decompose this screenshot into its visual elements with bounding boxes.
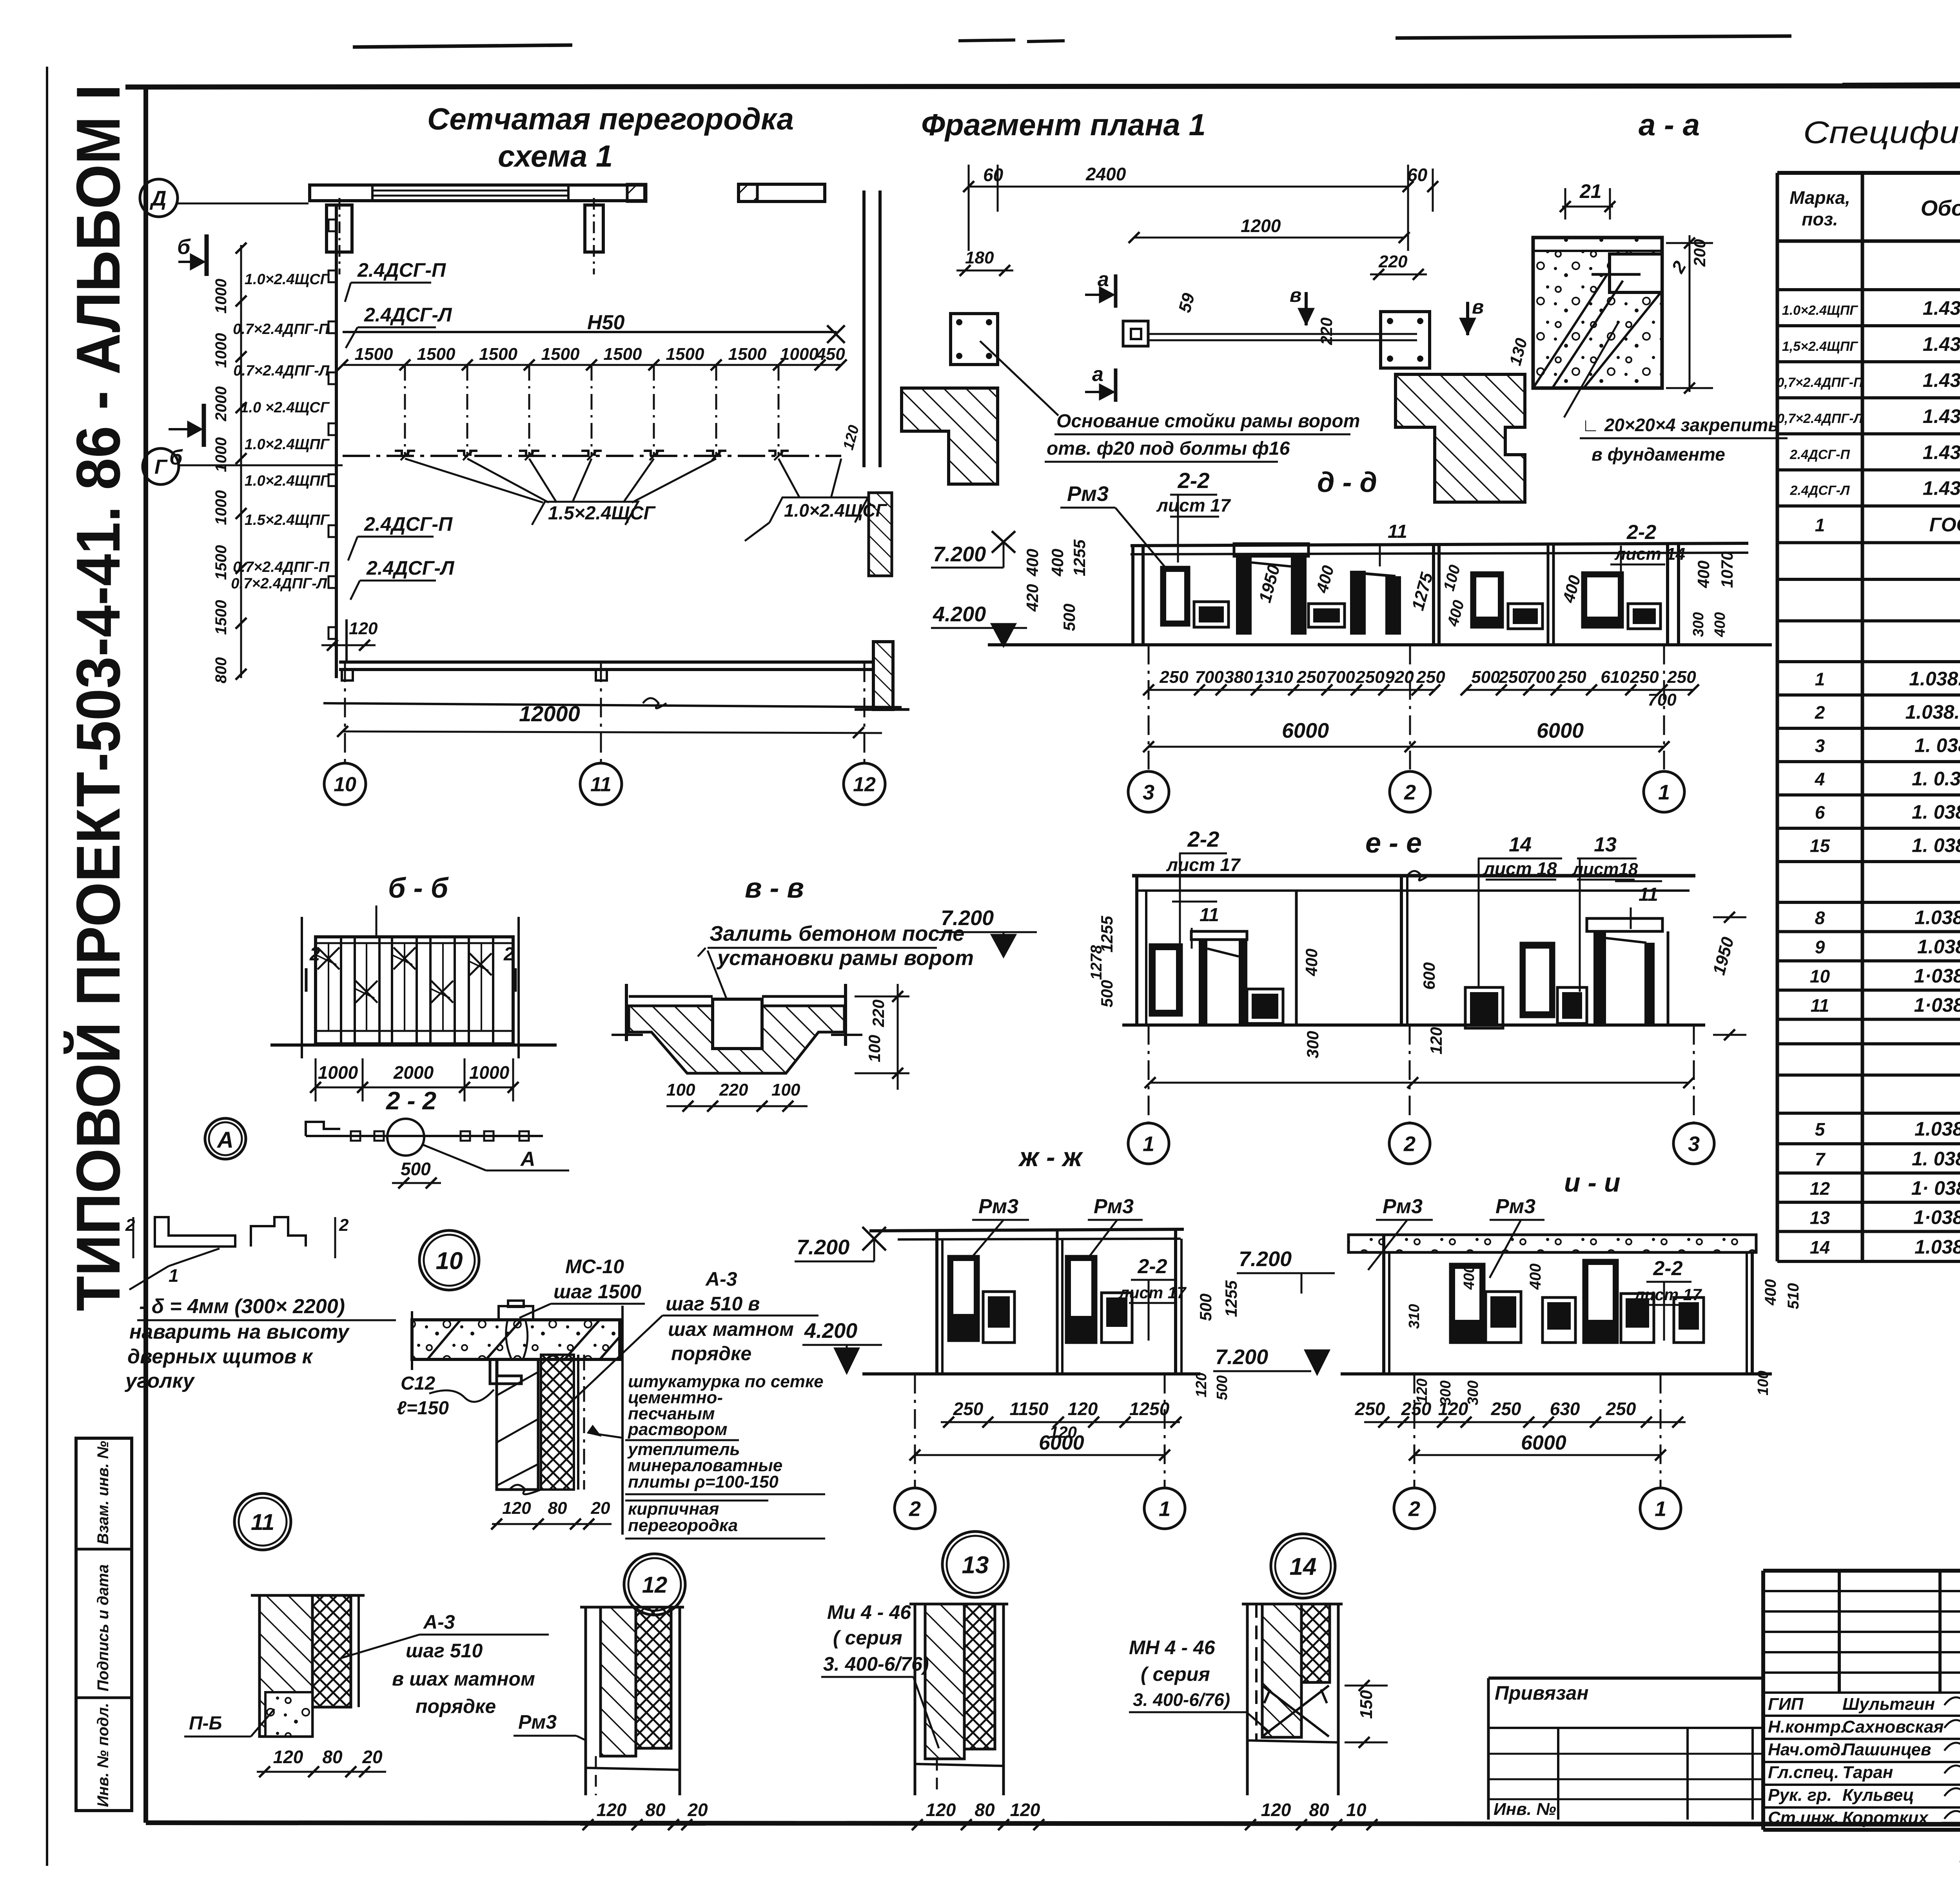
svg-text:Сетчатая перегородка: Сетчатая перегородка xyxy=(427,102,794,136)
svg-text:10: 10 xyxy=(1346,1800,1367,1820)
zh-zh bubbles xyxy=(914,1374,916,1488)
node11 wall detail xyxy=(260,1595,312,1737)
fan label 1.5x2.4SHSG xyxy=(532,502,638,525)
svg-text:15: 15 xyxy=(1810,835,1831,856)
section mark b upper xyxy=(205,234,209,276)
svg-text:8: 8 xyxy=(1815,907,1825,928)
svg-text:250: 250 xyxy=(1159,668,1189,687)
svg-text:шаг 510: шаг 510 xyxy=(406,1640,483,1662)
svg-text:250: 250 xyxy=(1401,1399,1432,1419)
svg-text:6000: 6000 xyxy=(1039,1432,1084,1454)
node bubble 10 xyxy=(419,1230,479,1290)
d-d grid bubbles xyxy=(1148,645,1150,769)
left gate post base xyxy=(951,314,998,365)
svg-text:3. 400-6/76): 3. 400-6/76) xyxy=(823,1653,929,1675)
svg-text:а: а xyxy=(1092,363,1103,386)
e-e walls xyxy=(1295,891,1298,1025)
svg-text:1.0×2.4ЩПГ: 1.0×2.4ЩПГ xyxy=(1782,303,1858,318)
e-e bay2 panels xyxy=(1465,987,1503,1028)
svg-text:500: 500 xyxy=(1060,604,1078,631)
svg-text:380: 380 xyxy=(1224,668,1253,687)
svg-text:1: 1 xyxy=(1655,1497,1666,1521)
svg-text:4.200: 4.200 xyxy=(933,602,986,626)
svg-text:∟ 20×20×4 закрепить: ∟ 20×20×4 закрепить xyxy=(1582,415,1779,435)
svg-text:Н.контр.: Н.контр. xyxy=(1768,1717,1846,1737)
svg-text:1070: 1070 xyxy=(1718,552,1736,588)
svg-text:0,7×2.4ДПГ-П: 0,7×2.4ДПГ-П xyxy=(1777,375,1864,390)
svg-text:Коротких: Коротких xyxy=(1842,1808,1929,1827)
svg-text:7.200: 7.200 xyxy=(941,906,994,930)
svg-text:1500: 1500 xyxy=(666,345,704,364)
node bubble 14 xyxy=(1271,1534,1335,1598)
svg-text:2-2: 2-2 xyxy=(1653,1257,1682,1280)
svg-text:13: 13 xyxy=(1810,1207,1830,1228)
svg-text:Инв. № подл.: Инв. № подл. xyxy=(94,1703,112,1807)
svg-text:1500: 1500 xyxy=(212,545,230,580)
node10 dims 120 80 20 xyxy=(492,1523,612,1525)
svg-text:400: 400 xyxy=(1048,549,1067,577)
svg-text:7: 7 xyxy=(1815,1149,1826,1169)
svg-text:1. 038.1 -1 вып.1: 1. 038.1 -1 вып.1 xyxy=(1915,734,1960,756)
gate top beam right part xyxy=(739,184,825,201)
svg-text:1: 1 xyxy=(1143,1132,1154,1156)
svg-text:250: 250 xyxy=(1667,668,1696,687)
svg-text:250: 250 xyxy=(1355,1399,1385,1419)
panel stack edge line xyxy=(335,204,338,678)
svg-text:установки рамы ворот: установки рамы ворот xyxy=(716,946,974,970)
svg-text:0.7×2.4ДПГ-Л: 0.7×2.4ДПГ-Л xyxy=(231,575,327,592)
svg-text:1.0×2.4ЩПГ: 1.0×2.4ЩПГ xyxy=(245,473,330,489)
d-d floor xyxy=(988,643,1772,646)
title block upper grid xyxy=(1838,1571,1841,1693)
svg-text:отв. ф20 под болты ф16: отв. ф20 под болты ф16 xyxy=(1047,438,1290,459)
i-i left wall xyxy=(1382,1235,1385,1374)
node12 wall detail xyxy=(584,1607,587,1795)
svg-text:400: 400 xyxy=(1712,612,1728,637)
svg-text:5: 5 xyxy=(1815,1119,1826,1140)
svg-text:1.038.1 -1 вып.1: 1.038.1 -1 вып.1 xyxy=(1917,936,1960,958)
svg-text:Фрагмент плана 1: Фрагмент плана 1 xyxy=(921,107,1206,142)
node13 dims xyxy=(906,1824,1051,1826)
svg-text:3: 3 xyxy=(1688,1132,1700,1156)
svg-text:1000: 1000 xyxy=(469,1062,510,1083)
svg-text:500: 500 xyxy=(1196,1294,1215,1321)
node10 right text block xyxy=(621,1306,624,1535)
leader to wall insulation xyxy=(588,1433,622,1438)
line under rail xyxy=(323,703,902,707)
svg-text:2-2: 2-2 xyxy=(1626,521,1656,544)
svg-text:порядке: порядке xyxy=(671,1343,751,1365)
svg-text:1500: 1500 xyxy=(355,345,393,364)
svg-text:Рук. гр.: Рук. гр. xyxy=(1768,1785,1832,1805)
svg-text:МС-10: МС-10 xyxy=(565,1256,624,1277)
concrete block a-a xyxy=(1533,238,1662,388)
e-e door right with cap xyxy=(1587,918,1662,931)
svg-text:120: 120 xyxy=(1068,1399,1098,1419)
svg-text:150: 150 xyxy=(1357,1690,1376,1719)
svg-text:1.0 ×2.4ЩСГ: 1.0 ×2.4ЩСГ xyxy=(240,399,330,416)
v-v slab lines xyxy=(629,995,713,998)
d-d bay1 panels xyxy=(1161,567,1189,625)
node10 wall below slab xyxy=(497,1359,538,1490)
vertical panel joints xyxy=(404,365,406,456)
d-d top beam xyxy=(1131,543,1748,546)
svg-text:1.431-10 вып.3: 1.431-10 вып.3 xyxy=(1923,441,1960,463)
svg-text:Таран: Таран xyxy=(1842,1763,1893,1782)
svg-text:б - б: б - б xyxy=(388,873,449,904)
svg-text:14: 14 xyxy=(1509,833,1532,856)
dim 500 under 2-2 xyxy=(392,1182,441,1184)
svg-text:100: 100 xyxy=(771,1080,800,1100)
svg-text:2: 2 xyxy=(1408,1497,1420,1521)
svg-text:1.038.1 - 1 вып.1: 1.038.1 - 1 вып.1 xyxy=(1915,1118,1960,1140)
hatched wall right of plan xyxy=(1396,374,1525,502)
svg-text:1.038.1 - 1 вып.1: 1.038.1 - 1 вып.1 xyxy=(1915,1236,1960,1258)
svg-text:1,5×2.4ЩПГ: 1,5×2.4ЩПГ xyxy=(1782,339,1858,354)
svg-text:1.431-10 вып.3: 1.431-10 вып.3 xyxy=(1923,405,1960,427)
svg-text:10: 10 xyxy=(436,1247,463,1274)
svg-text:450: 450 xyxy=(816,345,845,364)
svg-text:2: 2 xyxy=(339,1216,349,1235)
big circle A xyxy=(205,1118,246,1159)
fan lines right xyxy=(779,459,800,498)
zh-zh right wall xyxy=(1174,1229,1177,1374)
svg-text:7.200: 7.200 xyxy=(1215,1345,1268,1369)
svg-text:2-2: 2-2 xyxy=(1187,827,1220,851)
e-e grid bubbles 1 2 3 xyxy=(1148,1025,1150,1124)
svg-text:120: 120 xyxy=(273,1747,303,1767)
svg-text:11: 11 xyxy=(1639,884,1658,905)
svg-text:2: 2 xyxy=(1815,702,1825,722)
svg-text:1500: 1500 xyxy=(479,345,517,364)
v-v trench mass hatched xyxy=(629,1006,844,1073)
b-b bottom line xyxy=(270,1043,557,1047)
i-i bubbles xyxy=(1414,1374,1416,1488)
svg-text:в шах матном: в шах матном xyxy=(392,1668,535,1690)
svg-text:ГОСТ 103-76*: ГОСТ 103-76* xyxy=(1929,514,1960,536)
svg-text:поз.: поз. xyxy=(1802,209,1838,229)
svg-text:10: 10 xyxy=(1810,966,1830,987)
d-d small dim row xyxy=(1149,689,1435,691)
svg-text:1.431-10 вып.3: 1.431-10 вып.3 xyxy=(1923,369,1960,391)
left dimension chain of elevation xyxy=(240,245,242,678)
v-v keyway xyxy=(713,999,762,1049)
node12 dims xyxy=(580,1824,706,1826)
svg-text:1255: 1255 xyxy=(1070,539,1089,576)
svg-text:2-2: 2-2 xyxy=(1178,468,1210,493)
svg-text:0.7×2.4ДПГ-П: 0.7×2.4ДПГ-П xyxy=(233,559,330,575)
fan label 1.0x2.4SHSG xyxy=(769,497,868,523)
d-d 6000 dims xyxy=(1149,746,1664,748)
node10 anchor MS-10 xyxy=(499,1306,533,1320)
svg-text:250: 250 xyxy=(1355,668,1385,687)
svg-text:120: 120 xyxy=(1261,1800,1291,1820)
svg-text:500: 500 xyxy=(1098,980,1116,1007)
svg-text:1.5×2.4ЩСГ: 1.5×2.4ЩСГ xyxy=(548,503,656,524)
svg-text:1: 1 xyxy=(1815,515,1825,535)
svg-text:420: 420 xyxy=(1023,584,1042,612)
svg-text:2.4ДСГ-П: 2.4ДСГ-П xyxy=(364,513,453,535)
svg-text:500: 500 xyxy=(401,1159,431,1179)
svg-text:250: 250 xyxy=(1416,668,1445,687)
v-v leader to keyway xyxy=(708,951,733,1015)
svg-text:400: 400 xyxy=(1762,1279,1779,1306)
svg-text:Пашинцев: Пашинцев xyxy=(1842,1740,1931,1759)
svg-text:700: 700 xyxy=(1648,690,1677,709)
svg-text:1000: 1000 xyxy=(212,437,230,472)
bottom rail double line xyxy=(339,660,875,664)
svg-text:шаг 510 в: шаг 510 в xyxy=(666,1293,760,1315)
svg-text:в: в xyxy=(1290,284,1301,306)
center anchor square xyxy=(1123,321,1148,346)
2-2 plan strip xyxy=(306,1135,543,1137)
svg-text:1500: 1500 xyxy=(604,345,642,364)
svg-text:2: 2 xyxy=(1403,1132,1416,1156)
sheet frame xyxy=(125,85,1960,87)
1500 dimension row xyxy=(343,364,841,366)
svg-text:2: 2 xyxy=(503,944,514,965)
svg-text:310: 310 xyxy=(1406,1304,1423,1329)
svg-text:а - а: а - а xyxy=(1639,107,1700,142)
svg-text:лист 14: лист 14 xyxy=(1614,544,1685,564)
svg-text:1.431-10 вып.3: 1.431-10 вып.3 xyxy=(1923,477,1960,499)
svg-text:250: 250 xyxy=(1557,668,1586,687)
right gate post base xyxy=(1381,312,1430,368)
2-2 circle A node xyxy=(387,1119,424,1156)
e-e bay1 panels xyxy=(1150,945,1181,1015)
svg-text:Рм3: Рм3 xyxy=(1383,1195,1423,1218)
e-e 6000 dim line xyxy=(1150,1082,1689,1084)
svg-text:6: 6 xyxy=(1815,802,1825,822)
svg-text:400: 400 xyxy=(1461,1265,1477,1290)
v-v dims 100 220 100 xyxy=(666,1105,808,1107)
svg-text:шаг 1500: шаг 1500 xyxy=(554,1281,641,1303)
node14 X braces xyxy=(1262,1686,1329,1737)
svg-text:А: А xyxy=(520,1148,535,1170)
svg-text:100: 100 xyxy=(1755,1371,1771,1395)
svg-text:630: 630 xyxy=(1550,1399,1580,1419)
node14 wall detail xyxy=(1246,1604,1249,1795)
svg-text:1·038.1 - 1 вып.1: 1·038.1 - 1 вып.1 xyxy=(1914,994,1960,1016)
svg-text:1200: 1200 xyxy=(1241,216,1281,236)
svg-text:510: 510 xyxy=(1785,1283,1802,1309)
svg-text:ℓ=150: ℓ=150 xyxy=(397,1398,449,1419)
svg-text:3: 3 xyxy=(1143,780,1154,804)
svg-text:1·038-1 - 1 вып.1: 1·038-1 - 1 вып.1 xyxy=(1913,1206,1960,1228)
svg-text:20: 20 xyxy=(362,1747,383,1767)
svg-text:120: 120 xyxy=(1438,1399,1468,1419)
svg-text:1.038.1 - 1 вып.1: 1.038.1 - 1 вып.1 xyxy=(1915,906,1960,928)
svg-text:12: 12 xyxy=(1810,1178,1830,1199)
svg-text:Спецификация изделий к лист: Спецификация изделий к листам 11; 12; 18 xyxy=(1803,115,1960,150)
svg-text:2.4ДСГ-П: 2.4ДСГ-П xyxy=(1789,447,1851,462)
svg-text:12: 12 xyxy=(853,773,876,796)
svg-text:2000: 2000 xyxy=(393,1062,434,1083)
fan lines left xyxy=(405,459,543,503)
svg-text:1255: 1255 xyxy=(1222,1280,1240,1317)
svg-text:д - д: д - д xyxy=(1317,467,1377,498)
svg-text:13: 13 xyxy=(1594,833,1617,856)
title block outer xyxy=(1761,1571,1765,1830)
svg-text:220: 220 xyxy=(869,1000,887,1027)
svg-text:1: 1 xyxy=(169,1265,179,1286)
svg-text:400: 400 xyxy=(1023,549,1042,577)
svg-text:120: 120 xyxy=(1193,1373,1210,1397)
svg-text:180: 180 xyxy=(965,248,994,267)
grid bubble D xyxy=(140,179,178,217)
right column post xyxy=(585,205,603,252)
svg-text:в фундаменте: в фундаменте xyxy=(1592,444,1725,465)
svg-text:( серия: ( серия xyxy=(1141,1663,1210,1685)
outer trim line left xyxy=(46,67,48,1866)
svg-text:Привязан: Привязан xyxy=(1495,1682,1589,1704)
node bubble 11 xyxy=(234,1493,291,1550)
svg-text:порядке: порядке xyxy=(416,1695,496,1717)
svg-text:и - и: и - и xyxy=(1564,1168,1621,1198)
svg-text:1000: 1000 xyxy=(212,333,230,368)
i-i panels xyxy=(1450,1264,1484,1343)
grid bubbles 10 11 12 xyxy=(344,662,346,763)
svg-text:0,7×2.4ДПГ-Л: 0,7×2.4ДПГ-Л xyxy=(1777,411,1863,426)
svg-text:21: 21 xyxy=(1579,180,1602,202)
rail support hatched wall xyxy=(873,642,893,709)
svg-text:7.200: 7.200 xyxy=(933,543,986,566)
grid bubble G xyxy=(143,448,179,484)
svg-text:Н50: Н50 xyxy=(587,311,624,334)
privyazan strip xyxy=(1488,1677,1763,1680)
svg-text:6000: 6000 xyxy=(1521,1432,1566,1454)
svg-text:в - в: в - в xyxy=(745,873,804,904)
zh-zh bay panels xyxy=(949,1256,978,1341)
svg-text:120: 120 xyxy=(597,1800,627,1820)
svg-text:1: 1 xyxy=(1658,780,1670,804)
svg-text:610: 610 xyxy=(1601,668,1630,687)
svg-text:4.200: 4.200 xyxy=(804,1319,857,1343)
svg-text:1.431-10 вып.3: 1.431-10 вып.3 xyxy=(1923,297,1960,319)
svg-text:2000: 2000 xyxy=(212,386,230,422)
svg-text:1: 1 xyxy=(1159,1497,1171,1521)
node14 dims xyxy=(1239,1824,1384,1826)
svg-text:3. 400-6/76): 3. 400-6/76) xyxy=(1133,1689,1230,1710)
zh-zh top beam xyxy=(869,1229,1184,1231)
svg-text:1.0×2.4ЩСГ: 1.0×2.4ЩСГ xyxy=(784,500,887,521)
svg-text:3: 3 xyxy=(1815,735,1825,756)
svg-text:Д: Д xyxy=(150,187,167,210)
svg-text:700: 700 xyxy=(1526,668,1555,687)
svg-text:1.038. 1 - 1. вып.1: 1.038. 1 - 1. вып.1 xyxy=(1909,668,1960,690)
svg-text:220: 220 xyxy=(1378,252,1408,271)
svg-text:2.4ДСГ-Л: 2.4ДСГ-Л xyxy=(364,304,452,326)
gate top beam left part xyxy=(310,185,645,201)
i-i right wall xyxy=(1751,1252,1754,1374)
corner angle detail under A xyxy=(155,1217,235,1247)
svg-text:7.200: 7.200 xyxy=(1239,1247,1292,1271)
node10 channel C12 xyxy=(490,1359,521,1384)
svg-text:250: 250 xyxy=(1606,1399,1636,1419)
svg-text:0.7×2.4ДПГ-Л: 0.7×2.4ДПГ-Л xyxy=(233,363,330,379)
svg-text:60: 60 xyxy=(983,165,1004,185)
svg-text:220: 220 xyxy=(719,1080,748,1100)
svg-text:11: 11 xyxy=(1811,995,1829,1016)
svg-text:в: в xyxy=(1472,296,1484,318)
svg-text:12: 12 xyxy=(642,1572,668,1598)
svg-text:2: 2 xyxy=(909,1497,921,1521)
svg-text:Г: Г xyxy=(154,456,168,479)
svg-text:лист 17: лист 17 xyxy=(1634,1285,1702,1304)
svg-text:Обозначение: Обозначение xyxy=(1921,196,1960,220)
svg-text:12000: 12000 xyxy=(519,701,580,726)
svg-text:11: 11 xyxy=(1388,521,1407,542)
svg-text:А-3: А-3 xyxy=(423,1611,455,1633)
svg-text:1500: 1500 xyxy=(417,345,456,364)
svg-text:400: 400 xyxy=(1302,949,1321,976)
svg-text:6000: 6000 xyxy=(1537,719,1584,742)
svg-text:700: 700 xyxy=(1326,668,1355,687)
svg-text:1000: 1000 xyxy=(318,1062,358,1083)
bottom chord dash-dot with clips xyxy=(343,455,841,457)
svg-text:1.431-10 вып.3: 1.431-10 вып.3 xyxy=(1923,333,1960,355)
svg-text:А-3: А-3 xyxy=(705,1268,737,1290)
svg-text:80: 80 xyxy=(322,1747,343,1767)
svg-text:250: 250 xyxy=(1498,668,1528,687)
svg-text:плиты ρ=100-150: плиты ρ=100-150 xyxy=(628,1472,779,1492)
right corner wall xyxy=(862,191,866,467)
svg-text:Марка,: Марка, xyxy=(1789,187,1850,208)
svg-text:11: 11 xyxy=(1200,905,1219,925)
svg-text:800: 800 xyxy=(212,657,230,684)
svg-text:2.4ДСГ-Л: 2.4ДСГ-Л xyxy=(366,557,455,579)
svg-text:1·038.1 - 1 вып.1: 1·038.1 - 1 вып.1 xyxy=(1914,965,1960,987)
specification table xyxy=(1776,173,1779,1261)
d-d mid post xyxy=(1432,543,1435,645)
svg-text:Ст.инж.: Ст.инж. xyxy=(1768,1808,1839,1827)
svg-text:1. 0.38.1 -1 вып.1: 1. 0.38.1 -1 вып.1 xyxy=(1912,768,1960,789)
svg-text:10: 10 xyxy=(334,773,356,796)
svg-text:2.4ДСГ-Л: 2.4ДСГ-Л xyxy=(1790,483,1850,498)
svg-text:Гл.спец.: Гл.спец. xyxy=(1768,1763,1839,1782)
section mark b lower xyxy=(202,404,206,447)
svg-text:шах матном: шах матном xyxy=(668,1318,794,1340)
svg-text:1150: 1150 xyxy=(1010,1399,1049,1419)
svg-text:схема 1: схема 1 xyxy=(498,139,613,173)
svg-text:120: 120 xyxy=(349,619,378,638)
svg-text:100: 100 xyxy=(666,1080,695,1100)
svg-text:300: 300 xyxy=(1303,1031,1322,1058)
svg-text:е - е: е - е xyxy=(1365,827,1422,859)
svg-text:120: 120 xyxy=(926,1800,956,1820)
svg-text:2.4ДСГ-П: 2.4ДСГ-П xyxy=(357,259,446,281)
node bubble 12 xyxy=(624,1554,685,1615)
svg-text:250: 250 xyxy=(1296,668,1326,687)
svg-text:80: 80 xyxy=(975,1800,995,1820)
svg-text:400: 400 xyxy=(1527,1263,1544,1290)
svg-text:80: 80 xyxy=(1309,1800,1329,1820)
svg-text:120: 120 xyxy=(502,1499,531,1518)
svg-text:дверных щитов к: дверных щитов к xyxy=(127,1345,314,1368)
svg-text:лист 17: лист 17 xyxy=(1156,495,1231,515)
svg-text:Шультгин: Шультгин xyxy=(1842,1695,1935,1714)
zh-zh left wall xyxy=(935,1231,938,1374)
svg-text:уголку: уголку xyxy=(124,1370,195,1392)
b-b dims 1000 2000 1000 xyxy=(316,1087,513,1089)
d-d left wall xyxy=(1131,546,1134,645)
node10 floor slab xyxy=(412,1320,620,1359)
svg-text:Рм3: Рм3 xyxy=(1094,1195,1134,1218)
svg-text:б: б xyxy=(177,235,191,259)
svg-text:С12: С12 xyxy=(401,1373,435,1394)
svg-text:МН 4 - 46: МН 4 - 46 xyxy=(1129,1637,1216,1658)
rails between posts xyxy=(1149,333,1417,335)
